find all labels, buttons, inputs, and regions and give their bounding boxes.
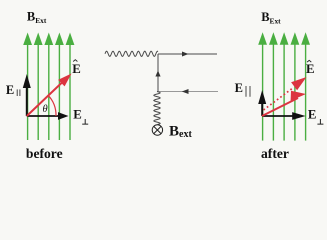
- svg-text:E: E: [73, 107, 82, 121]
- svg-text:after: after: [261, 146, 289, 161]
- svg-text:before: before: [26, 146, 63, 161]
- svg-text:E: E: [306, 62, 315, 76]
- svg-text:E: E: [235, 81, 243, 95]
- svg-text:E: E: [308, 107, 317, 121]
- svg-text:E: E: [72, 62, 81, 76]
- svg-text:E: E: [6, 83, 14, 97]
- svg-text:θ: θ: [43, 104, 48, 115]
